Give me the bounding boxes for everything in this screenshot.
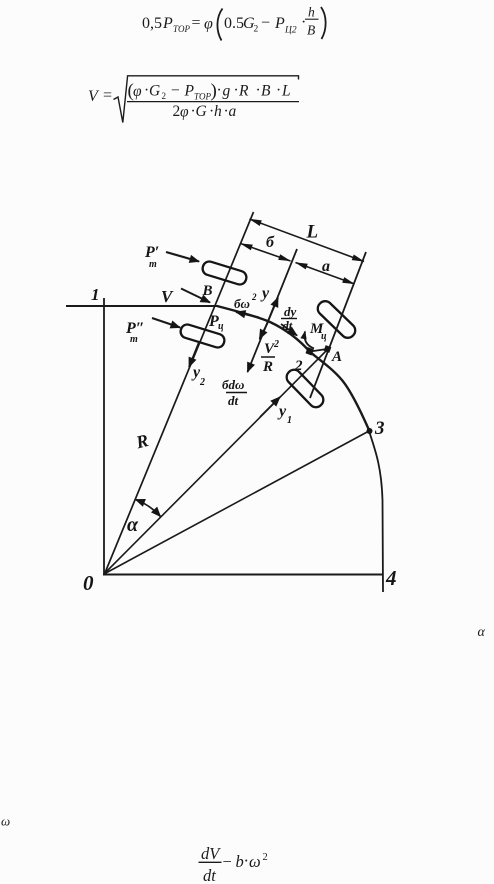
- formula F3 fraction dV/dt: [199, 844, 222, 884]
- formula F2 V equals: [88, 87, 112, 105]
- svg-text:−: −: [223, 852, 232, 871]
- dimension line a: [296, 263, 355, 285]
- svg-text:G: G: [149, 83, 160, 100]
- svg-text:2: 2: [199, 377, 205, 388]
- svg-text:φ: φ: [133, 83, 142, 100]
- formula F1 left paren: [217, 9, 222, 41]
- svg-text:y: y: [277, 403, 287, 420]
- svg-text:2: 2: [251, 292, 257, 302]
- formula F2 fraction bar: [127, 101, 299, 103]
- arc 3-4: [369, 431, 383, 592]
- svg-text:B: B: [202, 283, 213, 299]
- svg-text:dt: dt: [228, 393, 239, 408]
- formula F2 numerator: [128, 81, 291, 102]
- svg-text:·: ·: [234, 82, 239, 99]
- svg-text:ц: ц: [218, 321, 224, 332]
- svg-text:·: ·: [217, 82, 222, 99]
- svg-text:P: P: [274, 15, 285, 32]
- wheel front-right W3: [315, 298, 358, 340]
- arrow V (velocity at B): [181, 289, 210, 303]
- svg-text:т: т: [130, 334, 138, 345]
- svg-text:0,5: 0,5: [142, 15, 162, 32]
- svg-text:a: a: [229, 103, 237, 120]
- svg-text:dy: dy: [284, 304, 297, 319]
- axle line right (through W3, A, W4): [310, 252, 366, 398]
- wire radius line 0-3: [104, 431, 369, 574]
- arrow b*omega^2 (pointing left at B): [236, 312, 259, 318]
- svg-text:0.5: 0.5: [224, 15, 244, 32]
- angle alpha arc with arrows: [136, 500, 161, 517]
- svg-text:0: 0: [83, 571, 94, 595]
- svg-text:б: б: [266, 234, 275, 251]
- svg-text:h: h: [308, 5, 315, 20]
- svg-text:2: 2: [254, 25, 259, 35]
- svg-text:g: g: [223, 83, 231, 100]
- svg-text:−: −: [171, 82, 180, 99]
- svg-text:R: R: [133, 430, 150, 453]
- arrow P''t (force on rear-left wheel): [152, 318, 180, 328]
- svg-text:2: 2: [263, 852, 268, 863]
- svg-text:ω: ω: [1, 814, 10, 829]
- node 3: [367, 428, 373, 434]
- arrow y2 (on radius line 0-B): [189, 342, 199, 367]
- segment 2-A: [310, 349, 327, 352]
- arrow dy/dt (down-right from center): [281, 324, 297, 336]
- arrow y1 (on radius line 0-A): [260, 397, 280, 417]
- wheel rear-right W4: [284, 367, 326, 410]
- svg-text:a: a: [322, 258, 330, 275]
- svg-text:1: 1: [287, 415, 292, 426]
- svg-text:3: 3: [374, 418, 385, 439]
- wheel front-left W1: [201, 260, 248, 286]
- svg-text:Ц2: Ц2: [284, 26, 297, 36]
- svg-text:b: b: [236, 852, 244, 871]
- svg-text:·: ·: [301, 14, 306, 31]
- svg-text:α: α: [478, 625, 486, 640]
- wheel rear-left W2: [179, 323, 226, 349]
- wire horizontal line 0-4: [103, 574, 383, 576]
- svg-text:B: B: [261, 83, 271, 100]
- svg-text:h: h: [214, 103, 222, 120]
- wire vertical line 0-1: [103, 298, 105, 575]
- svg-text:т: т: [149, 259, 157, 270]
- formula F3 minus b omega^2: [223, 851, 268, 871]
- axis line through center (y / V2R / b dw/dt): [248, 249, 298, 372]
- svg-text:P: P: [162, 15, 173, 32]
- arrow V2/R (down along axis): [260, 323, 268, 339]
- svg-text:ω: ω: [249, 852, 261, 871]
- svg-text:A: A: [331, 349, 342, 365]
- svg-text:φ: φ: [204, 16, 213, 33]
- svg-text:4: 4: [385, 566, 397, 590]
- svg-text:·: ·: [256, 82, 261, 99]
- svg-text:dV: dV: [201, 844, 221, 863]
- svg-text:P: P: [184, 83, 195, 100]
- svg-text:бdω: бdω: [222, 377, 244, 392]
- svg-text:2: 2: [273, 339, 279, 350]
- svg-text:ТОР: ТОР: [194, 92, 212, 102]
- node 2: [305, 347, 313, 355]
- formula F1 right paren: [321, 7, 326, 39]
- trajectory curve B-2-3: [217, 306, 369, 430]
- formula F1 fraction h/B: [305, 5, 319, 38]
- svg-text:1: 1: [91, 285, 100, 304]
- dimension line L: [250, 219, 365, 262]
- svg-text:=: =: [192, 15, 201, 32]
- svg-text:ц: ц: [321, 331, 327, 342]
- svg-text:G: G: [196, 103, 207, 120]
- dimension line b: [241, 244, 291, 262]
- moment arrow M_ts: [305, 332, 314, 349]
- svg-text:B: B: [307, 23, 315, 38]
- svg-text:V: V: [161, 287, 174, 306]
- formula F2 denominator: [173, 103, 237, 121]
- wire entry tangent line 1-B: [66, 305, 218, 307]
- node A: [324, 345, 332, 353]
- formula F1 inner expression: [224, 14, 306, 36]
- svg-text:V: V: [88, 88, 100, 105]
- svg-text:α: α: [127, 514, 139, 536]
- svg-text:2: 2: [162, 91, 167, 101]
- wire radius line 0-B (through wheels, point B): [105, 212, 254, 574]
- formula F1 term 0,5P_TOP: [142, 15, 213, 35]
- svg-text:L: L: [281, 83, 291, 100]
- formula F2 radical sign: [114, 76, 299, 123]
- svg-text:dt: dt: [283, 319, 293, 333]
- svg-text:R: R: [238, 83, 249, 100]
- svg-text:бω: бω: [234, 296, 250, 311]
- svg-text:2: 2: [294, 358, 303, 374]
- arrow y (up along axis): [267, 298, 279, 326]
- svg-text:y: y: [260, 285, 270, 302]
- svg-text:ТОР: ТОР: [173, 24, 191, 34]
- svg-text:φ: φ: [180, 104, 189, 121]
- svg-text:L: L: [306, 222, 319, 243]
- arrow P't (force on front-left wheel): [166, 252, 199, 262]
- svg-text:R: R: [262, 359, 273, 375]
- svg-text:=: =: [103, 87, 112, 104]
- svg-text:dt: dt: [203, 866, 216, 884]
- svg-text:·: ·: [276, 82, 281, 99]
- wire radius line 0-A: [104, 350, 327, 574]
- svg-text:−: −: [261, 15, 270, 32]
